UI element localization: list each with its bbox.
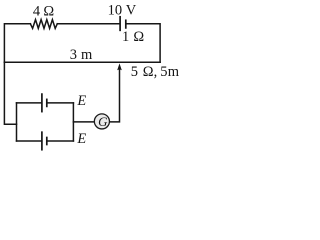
wire right bar to galvanometer: [73, 121, 94, 123]
cell E1 short plate: [46, 99, 48, 106]
jockey arrow: [117, 63, 122, 70]
galvanometer G: [94, 114, 109, 129]
node right junction bar: [72, 103, 74, 141]
svg-text:G: G: [98, 114, 108, 129]
wire resistor to battery: [57, 23, 119, 25]
cell E2 long plate: [41, 132, 43, 150]
svg-text:10V: 10V: [108, 3, 137, 19]
wire to cell E2: [17, 140, 42, 142]
wire left side down: [4, 62, 16, 124]
svg-text:E: E: [76, 131, 86, 147]
cell E1 long plate: [41, 94, 43, 112]
svg-text:4Ω: 4Ω: [33, 4, 55, 20]
svg-text:E: E: [76, 93, 86, 109]
cell E2 short plate: [46, 138, 48, 145]
potentiometer wire 3m: [4, 61, 160, 63]
wire cell E2 to right bar: [48, 140, 74, 142]
svg-text:3m: 3m: [70, 47, 93, 63]
wire to cell E1: [17, 102, 42, 104]
wire galvanometer to jockey shaft: [110, 70, 120, 122]
battery B1 10V short plate: [125, 20, 127, 28]
svg-text:5Ω,5m: 5Ω,5m: [131, 64, 180, 80]
wire top-left segment: [4, 24, 30, 63]
node left junction bar: [16, 103, 18, 141]
wire battery to top-right corner: [127, 24, 161, 63]
resistor R 4ohm: [30, 20, 57, 29]
wire cell E1 to right bar: [48, 102, 74, 104]
battery B1 10V long plate: [119, 17, 121, 31]
svg-text:1Ω: 1Ω: [122, 29, 144, 45]
